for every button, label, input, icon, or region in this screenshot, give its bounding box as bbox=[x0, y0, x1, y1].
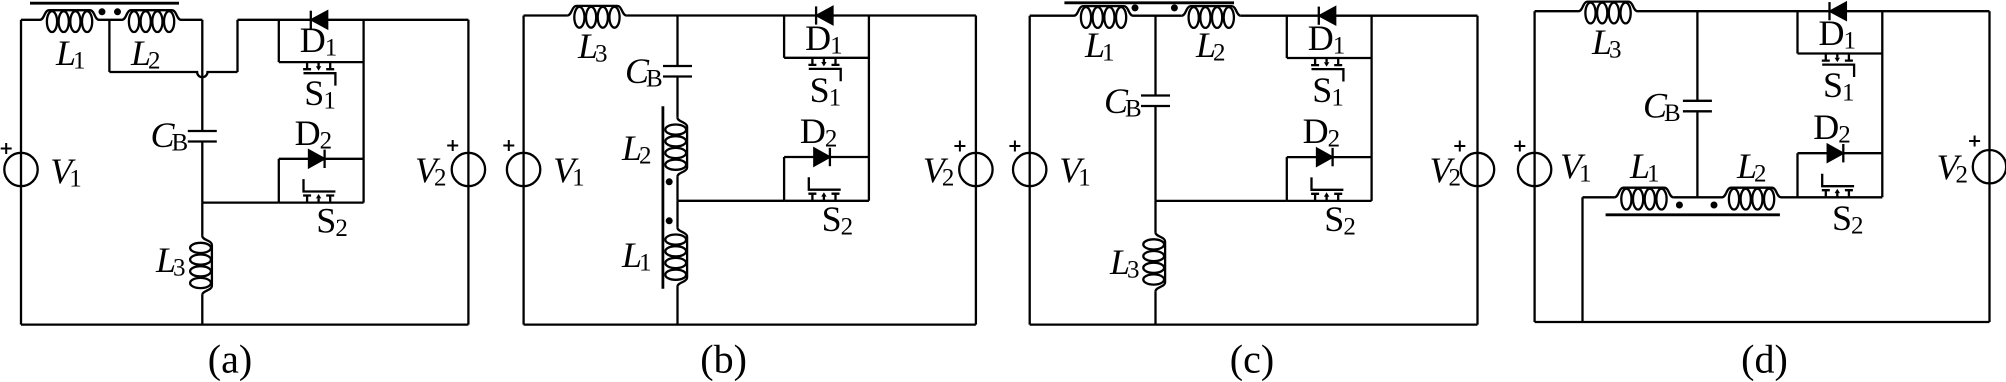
voltage source V1 (c) bbox=[1013, 153, 1046, 186]
wire: junction to S2 block (c) bbox=[1156, 200, 1287, 202]
wire: bottom rail (d) bbox=[1535, 321, 1990, 323]
wire: L3 top lead (c) bbox=[1154, 201, 1156, 233]
wire: rail to S2 block bbox=[202, 201, 278, 203]
svg-text:L1: L1 bbox=[55, 33, 86, 75]
polarity dot L2 (c) bbox=[1171, 4, 1178, 11]
wire: left rail bbox=[20, 20, 22, 325]
svg-text:S1: S1 bbox=[1823, 65, 1855, 107]
wire: top wire right part (b) bbox=[626, 14, 976, 16]
switch S2 mosfet (b) bbox=[808, 177, 840, 201]
inductor L2 (b) bbox=[665, 118, 687, 177]
V2 plus sign (b) bbox=[954, 141, 965, 152]
svg-text:L2: L2 bbox=[130, 33, 161, 75]
svg-text:V1: V1 bbox=[1059, 150, 1091, 192]
svg-text:S2: S2 bbox=[316, 201, 348, 243]
svg-text:(c): (c) bbox=[1230, 337, 1274, 382]
voltage source V2 (d) bbox=[1973, 150, 2006, 183]
wire: L3 bottom lead bbox=[201, 295, 203, 325]
svg-text:S1: S1 bbox=[304, 73, 336, 115]
V2 plus sign (d) bbox=[1969, 136, 1980, 147]
wire: junction to L1 (b) bbox=[676, 201, 678, 228]
switch S1 mosfet bbox=[303, 62, 335, 86]
diode D2 (b) bbox=[829, 148, 831, 166]
svg-text:L3: L3 bbox=[155, 240, 186, 282]
capacitor C_B bbox=[188, 131, 217, 142]
voltage source V1 bbox=[4, 153, 37, 186]
polarity dot L1 (b) bbox=[666, 217, 673, 224]
S1 block (b) left vertical wire bbox=[783, 16, 785, 58]
inductor L1 (b) bbox=[665, 228, 687, 287]
inductor L3 (c) bbox=[1143, 232, 1165, 291]
wire: bottom rail bbox=[21, 323, 468, 325]
inductor L2 (c) bbox=[1182, 6, 1241, 28]
wire: block right vertical bbox=[362, 20, 364, 203]
wire: capacitor to tap (d) bbox=[1696, 111, 1698, 197]
wire: L3 top lead bbox=[201, 203, 203, 236]
polarity dot L2 (d) bbox=[1711, 202, 1718, 209]
wire: capacitor to L2 (b) bbox=[676, 77, 678, 118]
wire: top wire (b) bbox=[524, 14, 568, 16]
S1 block (c) left vertical wire bbox=[1286, 16, 1288, 58]
wire: right rail (d) bbox=[1988, 11, 1990, 322]
wire: L2 down to capacitor bbox=[201, 20, 203, 131]
capacitor C_B (d) bbox=[1683, 101, 1712, 112]
wire: block right vertical (c) bbox=[1370, 16, 1372, 201]
wire: L2 to corner bbox=[181, 19, 202, 21]
inductor L1 (d) bbox=[1614, 188, 1673, 210]
svg-text:D2: D2 bbox=[1813, 107, 1851, 149]
polarity dot L1 (c) bbox=[1132, 4, 1139, 11]
switch S1 mosfet (d) bbox=[1822, 54, 1854, 78]
svg-text:S2: S2 bbox=[822, 199, 854, 241]
polarity dot L2 (b) bbox=[666, 178, 673, 185]
svg-text:CB: CB bbox=[1643, 86, 1681, 128]
diode D1 bbox=[1318, 7, 1320, 25]
svg-text:V2: V2 bbox=[923, 150, 955, 192]
wire: D2 line (d) bbox=[1798, 152, 1883, 154]
magnetic core bar (b) bbox=[662, 106, 665, 288]
wire: jog vertical to top wire bbox=[236, 20, 238, 72]
svg-text:V2: V2 bbox=[1430, 150, 1462, 192]
wire: tap segment (d) bbox=[1673, 196, 1722, 198]
svg-text:S2: S2 bbox=[1324, 199, 1356, 241]
diode D1 bbox=[815, 6, 817, 24]
diode D2 (c) bbox=[1331, 148, 1333, 166]
wire: tap down to capacitor (c) bbox=[1154, 16, 1156, 96]
wire: capacitor to junction (c) bbox=[1154, 106, 1156, 201]
wire: D2 line (c) bbox=[1287, 156, 1372, 158]
wire: S2 block left vertical bbox=[278, 159, 280, 203]
S1 block S-rail wire bbox=[279, 61, 364, 63]
wire: right rail (c) bbox=[1476, 16, 1478, 325]
V1 plus sign (c) bbox=[1009, 141, 1020, 152]
svg-text:L2: L2 bbox=[621, 128, 652, 170]
wire: D2 line (b) bbox=[784, 156, 869, 158]
wire: S2 left vertical (b) bbox=[783, 157, 785, 201]
wire: L1 left-end vertical (d) bbox=[1581, 197, 1583, 322]
svg-text:D2: D2 bbox=[1303, 111, 1341, 153]
diode D1 bbox=[1828, 2, 1830, 20]
svg-text:(b): (b) bbox=[700, 337, 747, 382]
inductor L2 (d) bbox=[1722, 188, 1781, 210]
wire: L3 bottom lead (c) bbox=[1154, 291, 1156, 324]
wire: left rail (b) bbox=[522, 16, 524, 325]
wire: tap rail with hop over C_B wire bbox=[109, 72, 237, 77]
voltage source V2 (b) bbox=[959, 153, 992, 186]
svg-text:D1: D1 bbox=[1308, 18, 1346, 60]
svg-text:V1: V1 bbox=[553, 150, 585, 192]
svg-text:L2: L2 bbox=[1736, 146, 1767, 188]
wire: S2 rail bbox=[279, 201, 364, 203]
switch S2 mosfet bbox=[303, 179, 335, 203]
svg-text:D1: D1 bbox=[1819, 13, 1857, 55]
voltage source V1 (d) bbox=[1518, 153, 1551, 186]
diode D2 bbox=[323, 150, 325, 168]
wire: top-left lead (c) bbox=[1030, 15, 1074, 17]
S1 block (d) left vertical wire bbox=[1796, 11, 1798, 53]
wire: L2 to right (c) bbox=[1241, 15, 1478, 17]
wire: L2 to junction (b) bbox=[676, 177, 678, 201]
inductor L3 bbox=[190, 236, 212, 295]
wire: bottom rail (c) bbox=[1030, 323, 1478, 325]
wire: capacitor to S2 rail bbox=[201, 142, 203, 203]
magnetic core bar over L1 L2 bbox=[30, 2, 179, 5]
V2 plus sign bbox=[447, 140, 458, 151]
capacitor C_B (b) bbox=[663, 66, 692, 77]
svg-text:CB: CB bbox=[625, 51, 663, 93]
svg-text:CB: CB bbox=[1104, 81, 1142, 123]
polarity dot L2 bbox=[114, 8, 121, 15]
inductor L2 bbox=[122, 10, 181, 32]
wire: right rail bbox=[467, 20, 469, 325]
svg-text:V2: V2 bbox=[415, 150, 447, 192]
svg-text:L2: L2 bbox=[1195, 25, 1226, 67]
wire: S2 rail (d) bbox=[1798, 196, 1883, 198]
wire: S2 left vertical (c) bbox=[1286, 157, 1288, 201]
wire: top-left lead bbox=[21, 19, 40, 21]
V1 plus sign (b) bbox=[503, 140, 514, 151]
polarity dot L1 bbox=[99, 8, 106, 15]
wire: D2 line bbox=[279, 158, 364, 160]
diode D2 (d) bbox=[1842, 144, 1844, 162]
switch S1 mosfet (b) bbox=[808, 58, 840, 82]
inductor L3 (b) bbox=[567, 6, 626, 28]
svg-text:L1: L1 bbox=[1084, 25, 1115, 67]
svg-text:S1: S1 bbox=[810, 70, 842, 112]
switch S1 mosfet (c) bbox=[1311, 58, 1343, 82]
voltage source V2 bbox=[452, 153, 485, 186]
wire: left rail (c) bbox=[1029, 16, 1031, 325]
wire: top wire to D1 and V2 bbox=[238, 19, 469, 21]
svg-text:D2: D2 bbox=[295, 113, 333, 155]
V1 plus sign (d) bbox=[1514, 141, 1525, 152]
wire: right rail (b) bbox=[975, 16, 977, 325]
wire: top wire left (d) bbox=[1535, 10, 1579, 12]
wire: left rail (d) bbox=[1533, 11, 1535, 322]
svg-text:(d): (d) bbox=[1741, 337, 1788, 382]
svg-text:L1: L1 bbox=[1629, 146, 1660, 188]
wire: L1-L2 tap segment bbox=[99, 19, 122, 21]
wire: tap segment (c) bbox=[1133, 15, 1182, 17]
wire: S2 left vertical (d) bbox=[1796, 153, 1798, 197]
switch S2 mosfet (d) bbox=[1822, 174, 1854, 198]
inductor L3 (d) bbox=[1579, 2, 1638, 24]
V2 plus sign (c) bbox=[1454, 141, 1465, 152]
switch S2 mosfet (c) bbox=[1311, 177, 1343, 201]
svg-text:L3: L3 bbox=[1591, 22, 1622, 64]
wire: L1 to bottom (b) bbox=[676, 287, 678, 325]
svg-text:V1: V1 bbox=[1560, 146, 1592, 188]
wire: S2 rail (b) bbox=[784, 200, 869, 202]
polarity dot L1 (d) bbox=[1676, 202, 1683, 209]
wire: block right vertical (d) bbox=[1881, 11, 1883, 197]
wire: block right vertical (b) bbox=[868, 16, 870, 201]
svg-text:L1: L1 bbox=[621, 235, 652, 277]
magnetic core bar (c) bbox=[1064, 1, 1234, 4]
svg-text:V1: V1 bbox=[50, 151, 82, 193]
svg-text:D1: D1 bbox=[805, 18, 843, 60]
S1 block left vertical wire bbox=[278, 20, 280, 62]
wire: L2 to S2 block (d) bbox=[1781, 196, 1798, 198]
wire: S2 rail (c) bbox=[1287, 200, 1372, 202]
S1 block (c) S-rail wire bbox=[1287, 57, 1372, 59]
voltage source V2 (c) bbox=[1461, 153, 1494, 186]
S1 block (b) S-rail wire bbox=[784, 57, 869, 59]
svg-text:L3: L3 bbox=[1109, 242, 1140, 284]
wire: down to capacitor (b) bbox=[676, 16, 678, 67]
svg-text:V2: V2 bbox=[1937, 147, 1969, 189]
svg-text:(a): (a) bbox=[208, 337, 252, 382]
S1 block (d) S-rail wire bbox=[1798, 52, 1883, 54]
wire: junction to S2 block (b) bbox=[678, 200, 785, 202]
svg-text:S2: S2 bbox=[1832, 198, 1864, 240]
wire: mid-wire lead (d) bbox=[1583, 196, 1615, 198]
svg-text:CB: CB bbox=[151, 115, 189, 157]
magnetic core bar (d) bbox=[1606, 213, 1780, 216]
inductor L1 (c) bbox=[1074, 6, 1133, 28]
capacitor C_B (c) bbox=[1141, 96, 1170, 107]
inductor L1 bbox=[40, 10, 99, 32]
wire: bottom rail (b) bbox=[524, 323, 976, 325]
svg-text:S1: S1 bbox=[1312, 70, 1344, 112]
wire: top wire right (d) bbox=[1638, 10, 1990, 12]
wire: center-tap vertical bbox=[108, 20, 110, 72]
diode D1 bbox=[310, 11, 312, 29]
voltage source V1 (b) bbox=[507, 153, 540, 186]
svg-text:D2: D2 bbox=[800, 111, 838, 153]
wire: down to capacitor (d) bbox=[1696, 11, 1698, 101]
svg-text:L3: L3 bbox=[577, 26, 608, 68]
svg-text:D1: D1 bbox=[300, 20, 338, 62]
V1 plus sign bbox=[1, 143, 12, 154]
